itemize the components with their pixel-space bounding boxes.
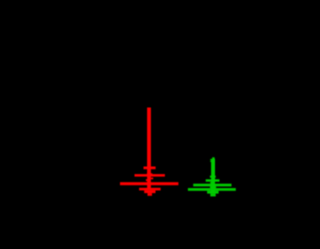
arrowhead A1 step 2 — [144, 190, 155, 193]
wire: red vertical lead — [147, 108, 151, 189]
arrowhead A2 step 1 — [207, 191, 219, 194]
lead tooth 2 — [210, 161, 211, 162]
lead tooth 1 — [210, 159, 211, 160]
ground electrode GND2 bar 2 (middle) — [193, 184, 231, 187]
junction bump left of lead below bar 1 — [210, 182, 211, 184]
junction bump right of lead — [151, 178, 153, 180]
junction bump left of lead — [146, 179, 148, 181]
arrowhead A1 step 1 (widest) — [139, 188, 161, 191]
junction bump above bar 2 — [147, 173, 153, 174]
ground electrode GND2 bar 1 (top, short) — [206, 179, 220, 181]
wire: green vertical lead — [211, 159, 215, 191]
ground electrode GND1 bar 3 (bottom, widest) — [120, 182, 178, 185]
lead top right half-line — [212, 157, 214, 159]
junction blob between bar 2 and bar 3 — [210, 186, 216, 188]
ground electrode GND1 bar 1 (top, short) — [144, 167, 156, 170]
arrowhead A1 step 3 (tip) — [148, 193, 153, 196]
ground electrode GND2 bar 3 (bottom, widest) — [188, 188, 236, 191]
arrowhead A2 step 2 (tip) — [210, 194, 215, 197]
ground electrode GND1 bar 2 (middle) — [135, 174, 165, 177]
junction blob above bar 1 — [210, 176, 216, 178]
